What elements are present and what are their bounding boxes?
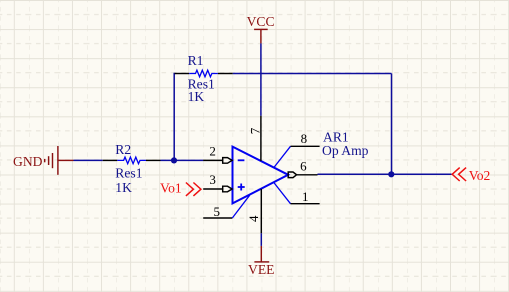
op-amp AR1 [203, 116, 368, 233]
pin 1 of R1 [175, 73, 190, 75]
svg-text:2: 2 [209, 144, 216, 159]
pin 4 [260, 189, 262, 233]
svg-text:7: 7 [247, 127, 262, 134]
svg-text:VEE: VEE [248, 262, 274, 277]
wire R1 to right vertical [233, 73, 392, 75]
wire VEE to pin4 [260, 233, 262, 246]
port Vo2 [452, 168, 466, 181]
body zigzag R1 [189, 70, 218, 77]
wire right vertical down to node B [391, 74, 393, 175]
pin 3 [203, 186, 232, 192]
resistor R1 [175, 53, 233, 104]
svg-text:8: 8 [301, 131, 308, 146]
svg-text:Vo2: Vo2 [469, 168, 491, 183]
svg-text:1: 1 [302, 189, 309, 204]
svg-text:Vo1: Vo1 [160, 181, 182, 196]
svg-text:1K: 1K [188, 89, 205, 104]
pin 6 [288, 172, 317, 178]
svg-text:GND: GND [13, 154, 43, 169]
wire GND to R2 [74, 159, 103, 161]
svg-text:Res1: Res1 [115, 166, 142, 181]
power port VCC [254, 29, 268, 43]
svg-text:5: 5 [214, 204, 221, 219]
wire VCC to pin7 [260, 43, 262, 115]
wire node A up to R1 level [174, 74, 175, 161]
pin 1 of R2 [103, 159, 118, 161]
pin 2 of R1 [218, 73, 233, 75]
svg-text:4: 4 [246, 215, 261, 222]
svg-text:3: 3 [209, 172, 216, 187]
svg-text:R2: R2 [115, 142, 131, 157]
junction node A [171, 157, 177, 163]
port Vo1 [186, 183, 201, 196]
power port GND [45, 146, 74, 175]
svg-text:6: 6 [300, 159, 307, 174]
power port VEE [254, 246, 269, 262]
wire R2 to node A and pin 2 [161, 159, 204, 161]
pin 1 [274, 183, 291, 204]
resistor R2 [103, 142, 161, 195]
triangle body [233, 147, 289, 204]
svg-text:Op Amp: Op Amp [322, 143, 369, 158]
pin 5 [203, 217, 232, 219]
body zigzag R2 [117, 157, 146, 164]
svg-text:R1: R1 [188, 53, 204, 68]
junction node B [388, 171, 394, 177]
pin 8 [274, 146, 291, 167]
minus symbol [238, 159, 245, 161]
pin 2 [203, 158, 232, 164]
svg-text:1K: 1K [115, 180, 132, 195]
plus symbol [238, 184, 245, 191]
wire output to Vo2 [318, 173, 452, 175]
pin 2 of R2 [146, 159, 161, 161]
pin 7 [260, 116, 262, 161]
svg-text:VCC: VCC [247, 14, 275, 29]
